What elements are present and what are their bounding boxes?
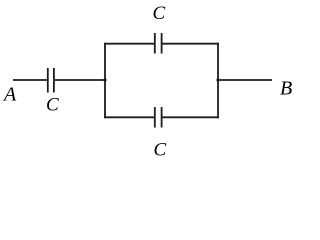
capacitor C3 (bottom branch, right plate) [161, 107, 163, 128]
capacitor C1 (series, left plate) [47, 68, 49, 93]
wire A to C1 [13, 79, 47, 81]
svg-text:C: C [153, 3, 166, 24]
wire top-right segment [163, 43, 219, 45]
capacitor C2 (top branch, right plate) [161, 33, 163, 54]
capacitor C1 (series, right plate) [53, 68, 55, 93]
node 1 junction [103, 78, 106, 81]
wire left edge of parallel loop [104, 43, 106, 118]
svg-text:A: A [2, 84, 17, 106]
wire C1 to node 1 [55, 79, 106, 81]
wire node 2 to B [217, 79, 272, 81]
svg-text:C: C [154, 140, 167, 161]
svg-text:C: C [46, 95, 59, 116]
capacitor C2 (top branch, left plate) [154, 33, 156, 54]
wire bottom-right segment [163, 116, 219, 118]
node 2 junction [216, 78, 219, 81]
wire top-left segment [104, 43, 154, 45]
wire right edge of parallel loop [217, 43, 219, 118]
capacitor C3 (bottom branch, left plate) [154, 107, 156, 128]
svg-text:B: B [280, 78, 292, 100]
wire bottom-left segment [104, 116, 154, 118]
